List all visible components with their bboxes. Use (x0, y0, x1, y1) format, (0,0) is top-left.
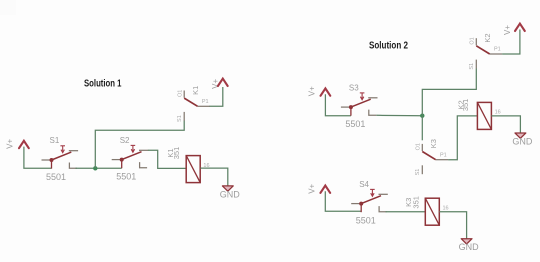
pushbutton switch S2 actuator (132, 145, 134, 151)
pushbutton switch S1 right pin bent lead (69, 163, 77, 169)
ground symbol GND1 (222, 186, 233, 191)
pushbutton switch S3 pin stub left (341, 106, 351, 108)
ground symbol GND2 (515, 133, 526, 138)
svg-text:S2: S2 (120, 136, 130, 145)
svg-text:GND: GND (459, 242, 480, 252)
pushbutton switch S2 left pin drop (121, 160, 123, 169)
pushbutton switch S1 actuator (62, 146, 64, 152)
relay coil K2 body (477, 102, 491, 129)
wire S1 output to S2 input (76, 167, 122, 169)
relay contact K3 pin P lead (436, 159, 448, 161)
pushbutton switch S4 blade (361, 196, 381, 204)
wire K3 contact P to K2 coil (448, 116, 477, 160)
wire V+ down to S4 row (325, 191, 361, 211)
relay coil K1 body (186, 156, 200, 183)
svg-text:P1: P1 (440, 152, 447, 158)
pushbutton switch S4 pin stub left (351, 203, 361, 205)
svg-text:351: 351 (461, 99, 470, 112)
pushbutton switch S4 actuator (371, 189, 373, 195)
pushbutton switch S4 terminal dot (359, 202, 363, 206)
svg-text:K2: K2 (483, 33, 492, 42)
relay contact K1 blade (184, 98, 197, 106)
wire K2 coil to GND (491, 116, 520, 133)
supply V+ symbol (P5 S4 input) arrow (320, 186, 330, 193)
wire K1 coil to GND (200, 168, 227, 186)
pushbutton switch S3 actuator (361, 93, 363, 99)
pushbutton switch S2 right pin bent lead (140, 162, 148, 168)
wire V+ down to S3 row (325, 94, 351, 116)
pushbutton switch S1 pin stub left (42, 159, 52, 161)
relay contact K2 blade (476, 46, 489, 54)
wire node A up to K2 contact S pin (422, 69, 476, 116)
svg-text:S4: S4 (359, 180, 369, 189)
wire S3 output to node A (376, 114, 422, 116)
svg-text:16: 16 (443, 206, 449, 212)
faint corner patch (0, 0, 16, 15)
pushbutton switch S3 blade (351, 99, 371, 107)
pushbutton switch S3 fixed contact stub (368, 97, 377, 99)
svg-text:S1: S1 (50, 136, 60, 145)
node junction S1-S2-K1contact (93, 166, 97, 170)
node A junction (420, 114, 424, 118)
relay contact K1 pin S lead (183, 112, 185, 121)
svg-text:O1: O1 (177, 90, 183, 97)
svg-text:S1: S1 (415, 169, 421, 176)
ground symbol GND3 (461, 239, 472, 244)
wire V+ down to S1 row (24, 147, 52, 169)
supply V+ symbol (P4 solution2 top right) arrow (515, 24, 525, 31)
svg-text:351: 351 (172, 147, 181, 160)
svg-text:5501: 5501 (46, 172, 66, 182)
supply V+ symbol (P3 S3 input) arrow (321, 88, 331, 95)
relay contact K3 pin S lead (421, 165, 423, 174)
relay contact K2 pin P lead (490, 53, 502, 55)
svg-text:351: 351 (411, 196, 420, 209)
svg-text:Solution 1: Solution 1 (84, 77, 122, 89)
wire S2 output to K1 coil (148, 150, 187, 168)
pushbutton switch S3 right pin bent lead (369, 110, 377, 116)
relay contact K2 pin O lead (475, 38, 477, 45)
svg-text:GND: GND (512, 136, 533, 146)
wire S4 output to K3 coil (386, 211, 426, 213)
svg-text:K1: K1 (191, 86, 200, 95)
pushbutton switch S2 pin stub left (112, 159, 122, 161)
relay contact K3 pin O lead (421, 144, 423, 151)
wire node A down to K3 contact O pin (421, 116, 423, 141)
pushbutton switch S2 terminal dot (120, 158, 124, 162)
pushbutton switch S3 terminal dot (349, 105, 353, 109)
svg-text:S1: S1 (469, 63, 475, 70)
supply V+ symbol (P2 solution1 right) arrow (218, 79, 228, 86)
svg-text:V+: V+ (503, 25, 512, 35)
svg-text:O1: O1 (416, 143, 422, 150)
pushbutton switch S1 terminal dot (50, 158, 54, 162)
relay coil K2 diagonal (477, 102, 491, 129)
svg-text:P1: P1 (202, 99, 209, 105)
relay coil K3 body (425, 198, 439, 225)
svg-text:P1: P1 (494, 47, 501, 53)
relay contact K3 blade (422, 152, 435, 160)
supply V+ symbol (P1 solution1 left) arrow (19, 141, 29, 148)
relay coil K3 diagonal (425, 198, 439, 225)
pushbutton switch S2 blade (122, 152, 142, 160)
svg-text:S3: S3 (349, 83, 359, 92)
svg-text:S1: S1 (177, 115, 183, 122)
pushbutton switch S1 left pin drop (51, 160, 53, 169)
pushbutton switch S3 left pin drop (350, 107, 352, 116)
pushbutton switch S1 fixed contact stub (69, 150, 78, 152)
wire node up to K1 contact S pin (95, 121, 184, 169)
svg-text:K3: K3 (429, 139, 438, 148)
pushbutton switch S1 blade (52, 152, 72, 160)
svg-text:Solution 2: Solution 2 (369, 40, 408, 52)
svg-text:GND: GND (220, 189, 241, 199)
svg-text:O1: O1 (470, 37, 476, 44)
svg-text:V+: V+ (6, 138, 15, 148)
svg-text:5501: 5501 (345, 119, 365, 129)
wire K3 coil to GND (439, 212, 466, 239)
svg-text:V+: V+ (308, 86, 317, 96)
pushbutton switch S4 right pin bent lead (379, 206, 387, 212)
svg-text:5501: 5501 (116, 171, 136, 181)
relay coil K1 diagonal (186, 156, 200, 183)
pushbutton switch S4 left pin drop (360, 204, 362, 213)
wire K2 contact P to V+ (502, 30, 520, 55)
svg-text:16: 16 (495, 110, 501, 116)
svg-text:V+: V+ (307, 183, 316, 193)
relay contact K1 pin O lead (183, 91, 185, 98)
svg-text:5501: 5501 (356, 215, 376, 225)
relay contact K2 pin S lead (475, 60, 477, 69)
relay contact K1 pin P lead (198, 105, 210, 107)
pushbutton switch S4 fixed contact stub (379, 193, 388, 195)
pushbutton switch S2 fixed contact stub (139, 149, 148, 151)
wire K1 contact P to V+ (210, 87, 223, 106)
